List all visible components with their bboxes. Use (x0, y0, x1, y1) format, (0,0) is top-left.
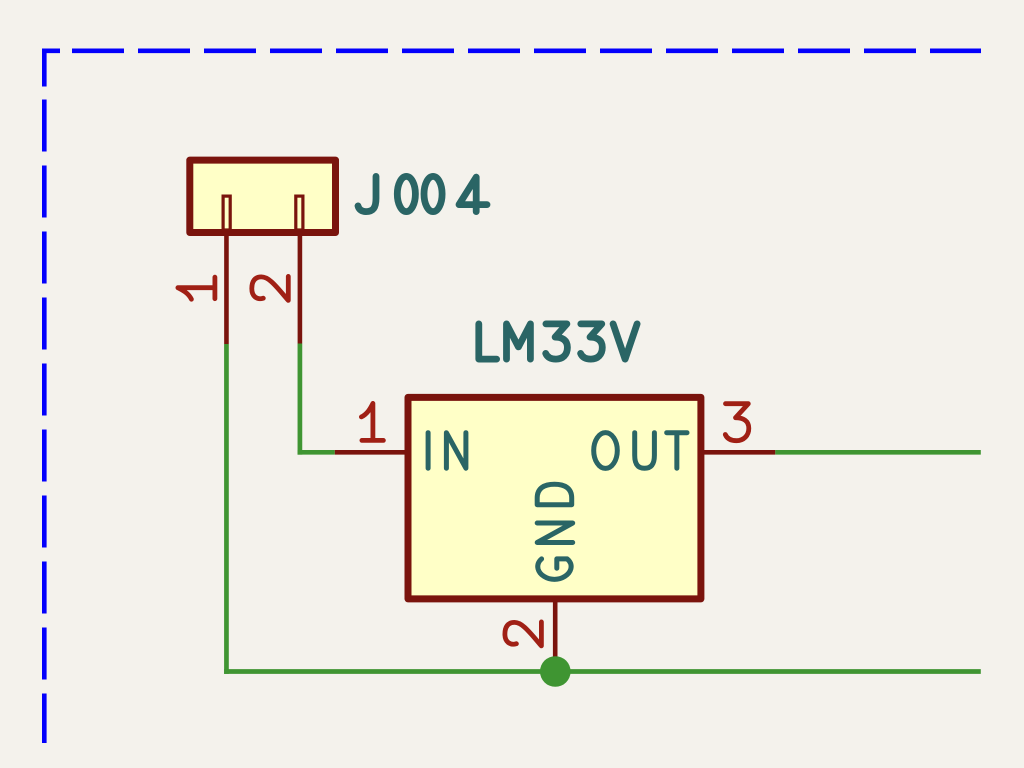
LM33V pin 3 (OUT) lead (703, 450, 775, 455)
wire junction dot (540, 656, 571, 687)
regulator U1 LM33V body (408, 397, 701, 599)
J004 pin number 2 (rotated) (252, 276, 288, 300)
LM33V pin number 1 (361, 403, 383, 440)
wire: J004 pin2 to IN, horizontal segment (298, 450, 335, 455)
J004 pin 1 lead (224, 234, 229, 344)
wire: bottom GND bus, horizontal (224, 669, 981, 674)
reference designator J004 (358, 176, 487, 211)
J004 pin number 1 (rotated) (178, 277, 215, 299)
sheet boundary: top dashed edge (42, 48, 981, 53)
sheet boundary: left dashed edge (42, 49, 47, 744)
J004 pin 1 stub rectangle (223, 196, 230, 230)
connector J004 body (190, 160, 336, 232)
J004 pin 2 stub rectangle (296, 196, 303, 230)
pin name IN (428, 433, 466, 469)
LM33V pin number 2 (rotated) (505, 622, 542, 646)
value label LM33V (479, 324, 637, 359)
LM33V pin 1 (IN) lead (335, 450, 406, 455)
J004 pin 2 lead (298, 234, 303, 344)
wire: J004 pin1 net, vertical segment down the left (224, 344, 229, 674)
LM33V pin 2 (GND) lead (553, 599, 558, 660)
wire: OUT net, horizontal to right edge (775, 450, 981, 455)
pin name OUT (594, 433, 687, 469)
wire: J004 pin2 to IN, vertical segment (298, 344, 303, 455)
pin name GND (rotated) (537, 484, 573, 579)
LM33V pin number 3 (725, 404, 749, 441)
